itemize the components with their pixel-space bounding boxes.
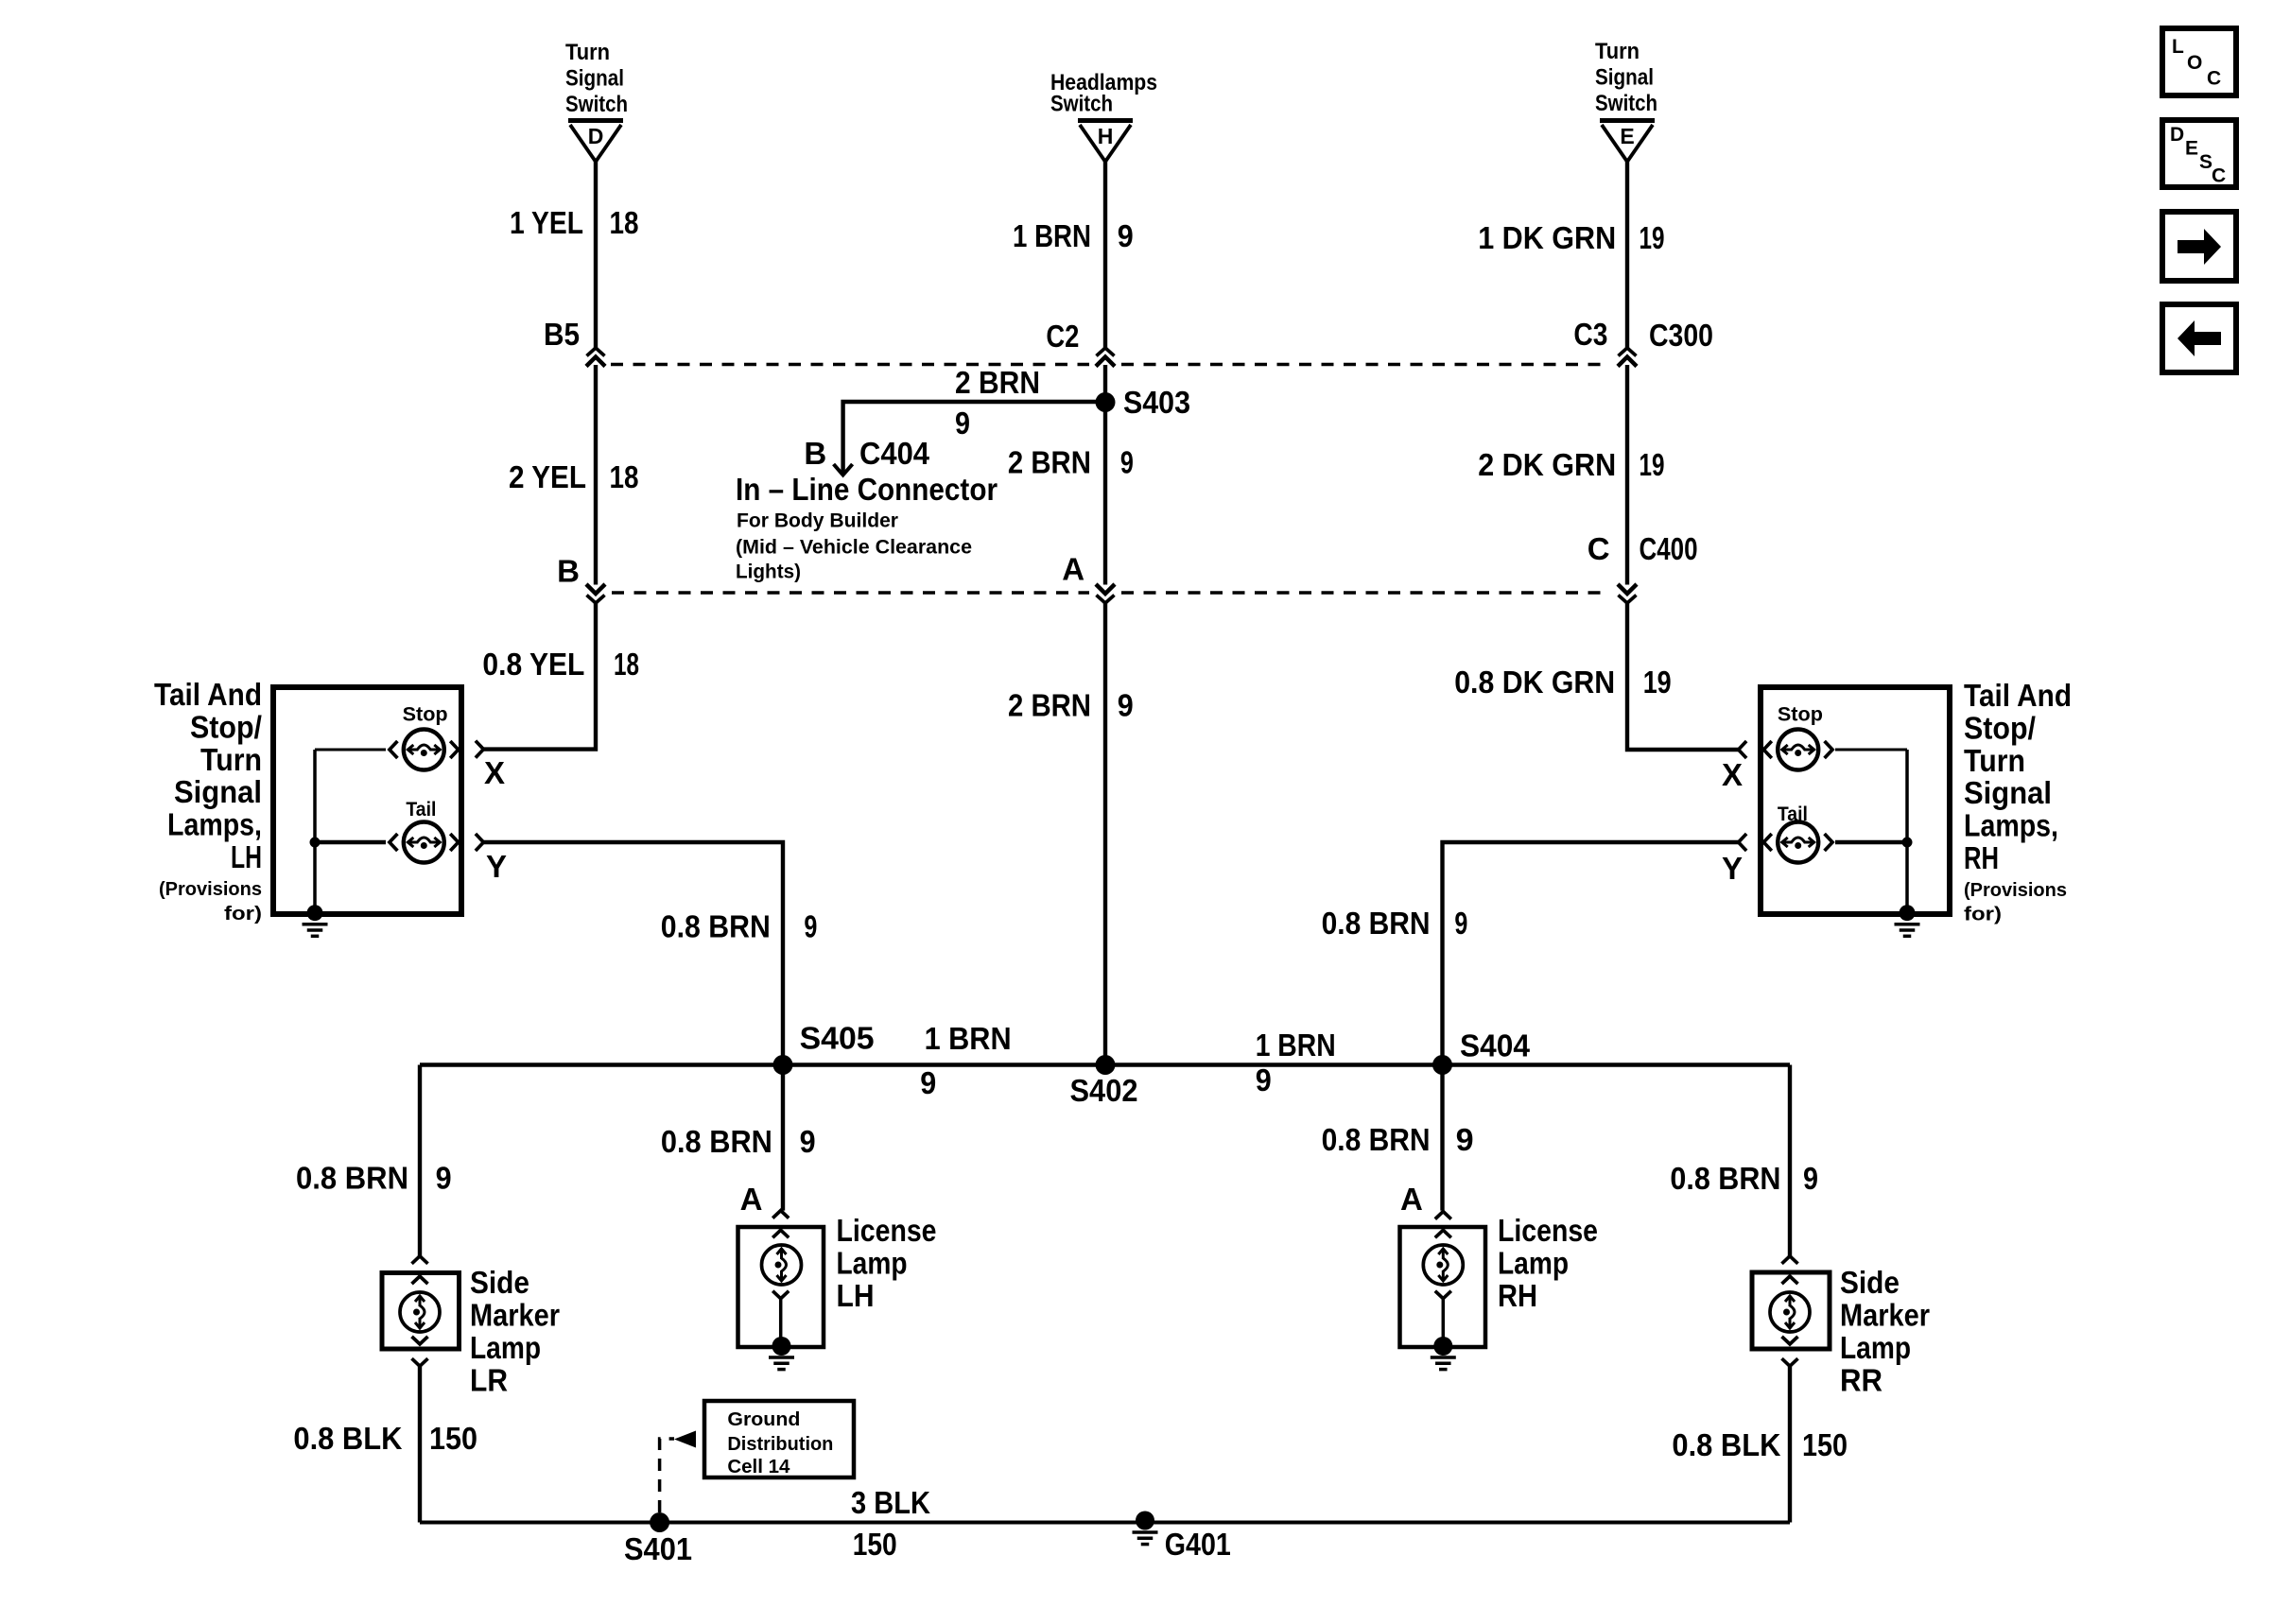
label Stop (RH) [1778, 703, 1823, 725]
wire label 0.8 BLK 150 (RR) [1672, 1427, 1848, 1462]
svg-text:A: A [1400, 1182, 1423, 1217]
in-line connector crossing at C3/C300 [1618, 348, 1637, 367]
svg-text:Switch: Switch [1050, 92, 1113, 117]
svg-text:RH: RH [1964, 840, 1999, 875]
component label Side Marker Lamp LR [470, 1265, 560, 1398]
wire S404 to License Lamp RH [1440, 1065, 1444, 1211]
svg-text:D: D [588, 124, 604, 148]
bulb Side Marker LR [400, 1292, 440, 1332]
svg-text:(Provisions: (Provisions [159, 879, 262, 900]
wire label 1 BRN 9 [1013, 218, 1134, 253]
pin chevron above LR box bottom [412, 1337, 428, 1344]
note: In-Line Connector [736, 472, 998, 507]
pin label Y (RH) [1722, 851, 1743, 886]
svg-text:19: 19 [1643, 665, 1672, 700]
component box: Tail And Stop/Turn Signal Lamps LH [273, 687, 461, 914]
svg-text:RR: RR [1840, 1363, 1883, 1398]
wire label 0.8 BRN 9 (RH Y drop) [1322, 906, 1468, 941]
svg-text:Tail And: Tail And [154, 677, 262, 712]
ground symbol license LH [769, 1357, 794, 1370]
wire C to RH lamp X pin (0.8 DK GRN segment) [1627, 602, 1739, 750]
svg-text:RH: RH [1498, 1278, 1537, 1313]
wire A to S402 (2 BRN segment) [1103, 602, 1107, 1065]
svg-text:Turn: Turn [1964, 743, 2025, 778]
pin chevron below LR marker box [412, 1358, 428, 1366]
svg-text:(Mid – Vehicle Clearance: (Mid – Vehicle Clearance [736, 537, 972, 559]
ground dot RH box [1900, 905, 1916, 921]
wire H triangle to C2 connector [1103, 162, 1107, 348]
svg-text:0.8 BRN: 0.8 BRN [661, 909, 771, 944]
pin chevron below bulb LH [772, 1291, 789, 1299]
svg-text:License: License [1498, 1213, 1598, 1248]
svg-text:S404: S404 [1460, 1028, 1531, 1063]
icon box left-arrow [2162, 304, 2236, 372]
svg-text:1 YEL: 1 YEL [510, 205, 583, 240]
component label License Lamp LH [837, 1213, 937, 1313]
svg-text:Ground: Ground [727, 1409, 800, 1430]
wire label 0.8 BRN 9 (license LH) [661, 1124, 816, 1159]
pin label Y (LH) [486, 849, 507, 884]
component box: Tail And Stop/Turn Signal Lamps RH [1761, 687, 1950, 914]
junction dot S402 [1096, 1055, 1116, 1075]
wire label 150 (ground bus) [853, 1527, 897, 1562]
component box: License Lamp RH [1400, 1227, 1486, 1347]
pin chevron inside license LH box [772, 1230, 789, 1237]
svg-text:2 YEL: 2 YEL [509, 459, 586, 494]
svg-text:150: 150 [1802, 1427, 1848, 1462]
svg-text:9: 9 [955, 406, 970, 441]
wire B5 to B (2 YEL segment) [594, 365, 598, 585]
arrowhead at C404 (branch end) [834, 464, 853, 475]
internal wire license RH [1442, 1299, 1446, 1338]
svg-text:1 BRN: 1 BRN [925, 1021, 1012, 1056]
component box: Side Marker Lamp RR [1752, 1272, 1830, 1349]
svg-text:0.8 BLK: 0.8 BLK [1672, 1427, 1780, 1462]
svg-text:Stop/: Stop/ [1964, 710, 2036, 745]
note: For Body Builder [737, 510, 898, 532]
svg-text:Turn: Turn [200, 742, 262, 777]
in-line connector crossing at B / C404 row [586, 584, 605, 603]
connector triangle H (Headlamps Switch) [1078, 121, 1133, 163]
svg-text:9: 9 [1118, 688, 1134, 723]
svg-text:9: 9 [1256, 1063, 1272, 1097]
wire LH Y to S405 [483, 842, 783, 1065]
pin chevron inside RR marker box [1782, 1276, 1798, 1284]
svg-text:S402: S402 [1070, 1073, 1138, 1108]
bulb License Lamp RH [1423, 1245, 1463, 1285]
component label Tail And Stop/Turn Signal Lamps RH [1964, 678, 2072, 925]
pin label X (RH) [1722, 757, 1743, 792]
svg-text:Stop: Stop [403, 703, 448, 725]
svg-text:9: 9 [1120, 445, 1134, 480]
svg-text:0.8 BRN: 0.8 BRN [1322, 1122, 1431, 1157]
svg-text:Switch: Switch [565, 92, 628, 117]
svg-text:2 BRN: 2 BRN [955, 365, 1040, 400]
wire label 1 DK GRN 19 [1478, 220, 1664, 255]
svg-text:9: 9 [1803, 1161, 1818, 1196]
pin label X (LH) [484, 755, 505, 790]
svg-text:Y: Y [1722, 851, 1743, 886]
svg-text:C: C [2212, 165, 2226, 187]
svg-text:G401: G401 [1165, 1527, 1231, 1562]
svg-text:9: 9 [436, 1161, 452, 1196]
svg-text:Stop: Stop [1778, 703, 1823, 725]
pin label C2 [1046, 319, 1079, 354]
wire label 1 BRN (S402-S404) [1256, 1028, 1336, 1063]
svg-text:D: D [2170, 124, 2184, 146]
wire label 1 BRN (S405-S402) [925, 1021, 1012, 1056]
svg-text:9: 9 [800, 1124, 816, 1159]
svg-text:18: 18 [610, 459, 639, 494]
component label Tail And Stop/Turn Signal Lamps LH [154, 677, 262, 924]
svg-text:C: C [1588, 531, 1610, 566]
svg-text:0.8 BRN: 0.8 BRN [1670, 1161, 1780, 1196]
dashed boundary line 1 (C300 row) [611, 363, 1610, 366]
note: Mid-Vehicle Clearance [736, 537, 972, 559]
svg-text:Lamp: Lamp [1498, 1246, 1569, 1281]
svg-text:C400: C400 [1640, 531, 1698, 566]
svg-text:S401: S401 [624, 1531, 692, 1566]
reference arrowhead to Ground Distribution [674, 1431, 696, 1448]
svg-text:Tail And: Tail And [1964, 678, 2072, 713]
svg-text:1 DK GRN: 1 DK GRN [1478, 220, 1616, 255]
wire label 0.8 BRN 9 (LR drop) [296, 1161, 452, 1196]
svg-text:O: O [2187, 52, 2202, 74]
svg-text:Marker: Marker [470, 1298, 560, 1333]
svg-text:for): for) [1964, 905, 2002, 925]
svg-text:H: H [1098, 124, 1114, 148]
pin chevron inside license RH box [1435, 1230, 1451, 1237]
svg-text:Lamps,: Lamps, [167, 807, 262, 842]
svg-text:Lamp: Lamp [1840, 1330, 1911, 1365]
wire label 2 DK GRN 19 [1478, 447, 1664, 482]
svg-text:In – Line Connector: In – Line Connector [736, 472, 998, 507]
junction label S401 [624, 1531, 692, 1566]
svg-text:Distribution: Distribution [727, 1434, 833, 1455]
svg-text:9: 9 [1454, 906, 1467, 941]
dashed boundary line 2 (C400 row) [612, 591, 1610, 594]
wire RH Y to S404 [1443, 842, 1739, 1065]
wire LR marker to ground bus (0.8 BLK) [418, 1366, 422, 1522]
svg-text:LH: LH [837, 1278, 875, 1313]
ground symbol license RH [1431, 1357, 1456, 1370]
internal ground wire RH [1905, 750, 1909, 913]
svg-text:for): for) [224, 904, 262, 924]
svg-text:C404: C404 [859, 436, 930, 471]
svg-text:A: A [1062, 552, 1084, 587]
svg-text:Signal: Signal [174, 774, 262, 809]
svg-text:Tail: Tail [406, 799, 436, 821]
svg-text:9: 9 [1118, 218, 1134, 253]
pin chevron above LR marker box [412, 1256, 428, 1264]
svg-text:C300: C300 [1649, 318, 1713, 353]
junction dot tail row RH [1902, 838, 1913, 848]
component label: Headlamps Switch [1050, 70, 1157, 117]
junction dot S404 [1432, 1055, 1452, 1075]
wire label 1 YEL 18 [510, 205, 639, 240]
svg-text:150: 150 [853, 1527, 897, 1562]
pin chevrons Stop LH [390, 741, 484, 758]
svg-text:L: L [2172, 36, 2184, 58]
svg-text:LR: LR [470, 1363, 508, 1398]
wire label 9 (below S403 branch) [955, 406, 970, 441]
wire B to LH lamp X pin (0.8 YEL segment) [483, 602, 596, 750]
bulb Tail LH [404, 822, 444, 863]
svg-text:E: E [2185, 138, 2198, 160]
wire label 2 YEL 18 [509, 459, 639, 494]
svg-text:Switch: Switch [1595, 91, 1657, 116]
ground symbol RH box [1895, 924, 1920, 937]
junction dot S403 [1096, 392, 1116, 412]
component box: License Lamp LH [738, 1227, 824, 1347]
svg-text:Signal: Signal [1964, 775, 2052, 810]
wire label 0.8 BLK 150 (LR) [293, 1421, 477, 1456]
svg-text:0.8 DK GRN: 0.8 DK GRN [1454, 665, 1615, 700]
connector label C404 [859, 436, 930, 471]
svg-text:Marker: Marker [1840, 1298, 1930, 1333]
internal wire stop row RH [1835, 749, 1907, 752]
component label: Turn Signal Switch (left) [565, 40, 628, 117]
ground label G401 [1165, 1527, 1231, 1562]
svg-text:X: X [1722, 757, 1743, 792]
svg-text:0.8 BLK: 0.8 BLK [293, 1421, 402, 1456]
svg-text:A: A [740, 1182, 763, 1217]
pin chevron below bulb RH [1435, 1291, 1451, 1299]
ground dot license RH [1433, 1337, 1452, 1356]
label Tail (LH) [406, 799, 436, 821]
svg-text:B5: B5 [544, 317, 580, 352]
svg-text:19: 19 [1640, 447, 1665, 482]
svg-text:License: License [837, 1213, 937, 1248]
wire label 9 (S405-S402) [920, 1065, 936, 1100]
svg-text:Turn: Turn [1595, 39, 1640, 64]
svg-text:0.8 YEL: 0.8 YEL [482, 647, 584, 682]
wire label 3 BLK [851, 1485, 930, 1520]
svg-text:Y: Y [486, 849, 507, 884]
svg-text:B: B [557, 554, 580, 589]
wire label 2 BRN 9 (below S403) [1008, 445, 1134, 480]
svg-text:Cell 14: Cell 14 [727, 1457, 790, 1477]
wire label 2 BRN 9 (lower H branch) [1008, 688, 1134, 723]
svg-text:9: 9 [804, 909, 817, 944]
connector label C300 [1649, 318, 1713, 353]
junction label S403 [1123, 385, 1190, 420]
junction label S405 [800, 1021, 875, 1056]
pin label C [1588, 531, 1610, 566]
svg-text:Signal: Signal [1595, 65, 1654, 91]
junction label S402 [1070, 1073, 1138, 1108]
wire label 9 (S402-S404) [1256, 1063, 1272, 1097]
component label License Lamp RH [1498, 1213, 1598, 1313]
svg-text:Lamp: Lamp [837, 1246, 908, 1281]
in-line connector crossing at C/C400 [1618, 584, 1637, 603]
wire S403 branch to C404 [843, 402, 1105, 473]
wire C2 to A connector (2 BRN segment) [1103, 365, 1107, 585]
svg-text:1 BRN: 1 BRN [1256, 1028, 1336, 1063]
bulb License Lamp LH [762, 1245, 802, 1285]
svg-text:C3: C3 [1573, 317, 1607, 352]
pin label B [557, 554, 580, 589]
svg-text:Stop/: Stop/ [190, 709, 262, 744]
internal wire tail row RH [1835, 840, 1907, 845]
svg-text:(Provisions: (Provisions [1964, 880, 2067, 901]
icon box LOC [2162, 28, 2236, 95]
wire ground bus (3 BLK 150) [420, 1521, 1790, 1525]
dashed reference wire from S401 [660, 1439, 674, 1512]
reference box: Ground Distribution Cell 14 [704, 1401, 854, 1477]
connector label C400 [1640, 531, 1698, 566]
pin chevrons Tail LH [390, 834, 484, 851]
label Stop (LH) [403, 703, 448, 725]
junction dot S401 [650, 1512, 669, 1532]
pin label A (license RH) [1400, 1182, 1423, 1217]
wire D triangle to B5 connector [594, 162, 598, 348]
ground symbol LH box [303, 924, 328, 937]
svg-text:9: 9 [1456, 1122, 1474, 1157]
svg-text:B: B [804, 436, 826, 471]
pin label B5 [544, 317, 580, 352]
wire C3 to C connector (2 DK GRN segment) [1625, 365, 1629, 585]
svg-text:Lamp: Lamp [470, 1330, 541, 1365]
svg-text:Turn: Turn [565, 40, 610, 65]
svg-text:3 BLK: 3 BLK [851, 1485, 930, 1520]
svg-text:Signal: Signal [565, 66, 624, 92]
svg-text:18: 18 [614, 647, 639, 682]
wire bus end to RR side marker [1788, 1065, 1792, 1257]
internal wire stop row LH [315, 749, 386, 752]
svg-text:1 BRN: 1 BRN [1013, 218, 1091, 253]
pin label A (license LH) [740, 1182, 763, 1217]
svg-text:2 BRN: 2 BRN [1008, 688, 1091, 723]
svg-text:S405: S405 [800, 1021, 875, 1056]
svg-text:For Body Builder: For Body Builder [737, 510, 898, 532]
pin chevron above RR marker box [1782, 1256, 1798, 1264]
component label: Turn Signal Switch (right) [1595, 39, 1657, 116]
in-line connector crossing at A / C400 row [1096, 584, 1115, 603]
svg-text:E: E [1620, 124, 1634, 148]
svg-text:2 BRN: 2 BRN [1008, 445, 1091, 480]
svg-text:C: C [2207, 68, 2221, 90]
bulb Stop RH [1778, 730, 1818, 770]
label Tail (RH) [1778, 803, 1808, 825]
wire S405 to License Lamp LH [781, 1065, 785, 1211]
pin label B (C404) [804, 436, 826, 471]
svg-text:Lamps,: Lamps, [1964, 808, 2058, 843]
icon box right-arrow [2162, 212, 2236, 281]
svg-text:0.8 BRN: 0.8 BRN [661, 1124, 772, 1159]
wire RR marker to ground bus (0.8 BLK) [1788, 1366, 1792, 1522]
svg-text:9: 9 [920, 1065, 936, 1100]
pin chevron below RR marker box [1782, 1358, 1798, 1366]
svg-text:18: 18 [610, 205, 639, 240]
ground dot license LH [772, 1337, 791, 1356]
svg-text:0.8 BRN: 0.8 BRN [1322, 906, 1431, 941]
wire label 2 BRN (above S403 branch) [955, 365, 1040, 400]
ground point G401 dot [1136, 1512, 1154, 1530]
pin chevron inside LR marker box [412, 1276, 428, 1284]
connector triangle D (Turn Signal Switch) [568, 121, 623, 163]
pin chevrons Tail RH [1739, 834, 1833, 851]
svg-text:LH: LH [231, 839, 262, 874]
component box: Side Marker Lamp LR [382, 1273, 460, 1350]
junction dot S405 [773, 1055, 793, 1075]
connector triangle E (Turn Signal Switch) [1600, 121, 1655, 163]
wire mid bus (1 BRN) [420, 1063, 1790, 1067]
svg-text:2 DK GRN: 2 DK GRN [1478, 447, 1616, 482]
pin chevron above license LH box [772, 1211, 789, 1218]
wire E triangle to C3 connector [1625, 162, 1629, 348]
pin chevrons Stop RH [1739, 741, 1833, 758]
svg-text:Side: Side [1840, 1265, 1900, 1300]
junction dot tail row LH [310, 838, 321, 848]
ground dot LH box [307, 905, 323, 921]
junction label S404 [1460, 1028, 1531, 1063]
pin chevron above license RH box [1435, 1212, 1451, 1219]
note: Lights) [736, 561, 801, 583]
wire label 0.8 YEL 18 [482, 647, 639, 682]
in-line connector crossing at B5 [586, 348, 605, 367]
component label Side Marker Lamp RR [1840, 1265, 1930, 1398]
pin label A [1062, 552, 1084, 587]
wire label 0.8 BRN 9 (RR drop) [1670, 1161, 1818, 1196]
wire label 0.8 DK GRN 19 [1454, 665, 1672, 700]
wire S405-bus end to LR side marker [418, 1065, 422, 1257]
internal wire license LH [779, 1299, 783, 1338]
reference label Ground Distribution Cell 14 [727, 1409, 833, 1477]
wire label 0.8 BRN 9 (LH Y drop) [661, 909, 818, 944]
bulb Side Marker RR [1770, 1292, 1810, 1332]
svg-text:0.8 BRN: 0.8 BRN [296, 1161, 408, 1196]
svg-text:150: 150 [429, 1421, 477, 1456]
svg-text:X: X [484, 755, 505, 790]
svg-text:S403: S403 [1123, 385, 1190, 420]
icon box DESC [2162, 120, 2236, 187]
internal wire tail row LH [315, 840, 386, 845]
internal ground wire LH [313, 750, 317, 913]
ground symbol G401 [1133, 1532, 1158, 1545]
wire label 0.8 BRN 9 (license RH) [1322, 1122, 1474, 1157]
bulb Tail RH [1778, 822, 1818, 863]
svg-text:Lights): Lights) [736, 561, 801, 583]
svg-text:19: 19 [1640, 220, 1665, 255]
svg-text:Side: Side [470, 1265, 529, 1300]
pin label C3 [1573, 317, 1607, 352]
in-line connector crossing at C2 [1096, 348, 1115, 367]
pin chevron above RR box bottom [1782, 1337, 1798, 1344]
bulb Stop LH [404, 730, 444, 770]
svg-text:S: S [2199, 151, 2212, 173]
svg-text:C2: C2 [1046, 319, 1079, 354]
